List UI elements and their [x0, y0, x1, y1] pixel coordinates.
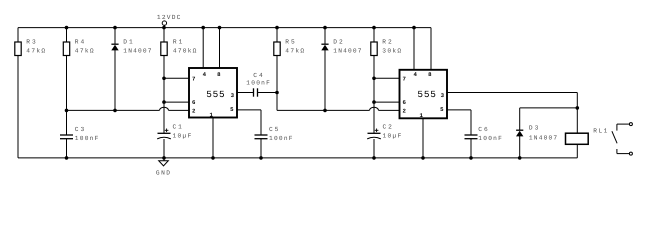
- relay coil RL1: [566, 128, 608, 158]
- svg-text:C2: C2: [383, 124, 393, 131]
- IC 555 U1 box: [189, 68, 237, 119]
- capacitor C6: [465, 126, 503, 158]
- svg-text:12VDC: 12VDC: [157, 14, 181, 21]
- svg-text:555: 555: [206, 89, 225, 100]
- terminal 12VDC: [157, 14, 181, 27]
- svg-text:47kΩ: 47kΩ: [75, 47, 94, 54]
- relay contact switch: [612, 123, 633, 156]
- svg-text:R4: R4: [75, 39, 85, 46]
- wire +12V top rail: [18, 27, 431, 29]
- junction dots bottom rail: [65, 156, 522, 160]
- svg-text:10µF: 10µF: [173, 132, 192, 139]
- svg-text:RL1: RL1: [593, 128, 607, 135]
- svg-text:6: 6: [192, 99, 196, 106]
- svg-text:R5: R5: [285, 39, 295, 46]
- wire 555 U1 pin 5 to C5: [237, 110, 261, 135]
- svg-text:1N4007: 1N4007: [123, 47, 151, 54]
- svg-text:7: 7: [402, 75, 406, 82]
- svg-text:D2: D2: [333, 39, 343, 46]
- resistor R2: [371, 28, 402, 134]
- svg-text:D1: D1: [123, 39, 133, 46]
- capacitor C3: [60, 110, 99, 157]
- capacitor C1 (polarized): [157, 124, 191, 158]
- capacitor C4 (coupling): [246, 72, 270, 97]
- svg-text:47kΩ: 47kΩ: [285, 47, 304, 54]
- svg-text:C5: C5: [269, 126, 279, 133]
- wire 555 U1 pin 7: [164, 77, 189, 79]
- diode D3 (flyback): [516, 108, 577, 158]
- svg-text:8: 8: [217, 71, 221, 78]
- resistor R4: [63, 28, 94, 111]
- svg-text:7: 7: [192, 75, 196, 82]
- resistor R3: [15, 28, 46, 158]
- resistor R1: [161, 28, 197, 134]
- svg-text:C3: C3: [75, 126, 85, 133]
- svg-text:100nF: 100nF: [246, 79, 270, 86]
- svg-text:R2: R2: [382, 39, 392, 46]
- svg-text:R1: R1: [173, 39, 183, 46]
- svg-text:47kΩ: 47kΩ: [26, 47, 45, 54]
- svg-text:6: 6: [402, 99, 406, 106]
- wire 555 U2 pin 8 to rail: [430, 28, 432, 70]
- svg-text:5: 5: [440, 106, 444, 113]
- svg-text:10µF: 10µF: [383, 132, 402, 139]
- ground symbol GND: [156, 158, 170, 177]
- svg-text:C6: C6: [478, 126, 488, 133]
- svg-text:100nF: 100nF: [269, 135, 293, 142]
- svg-text:2: 2: [402, 107, 406, 114]
- svg-text:3: 3: [231, 92, 235, 99]
- svg-text:C4: C4: [253, 72, 263, 79]
- wire 555 U2 pin 1 to ground: [422, 118, 424, 158]
- svg-text:30kΩ: 30kΩ: [382, 47, 401, 54]
- svg-text:2: 2: [192, 107, 196, 114]
- diode D2: [321, 28, 361, 111]
- resistor R5: [274, 28, 305, 93]
- wire trigger net stage 2 (C4/R5 node down and right to pin 2) with hop over R2 branch: [277, 93, 400, 111]
- wire C4 to R5/pin2 node: [258, 92, 278, 94]
- capacitor C2 (polarized): [367, 124, 401, 158]
- IC 555 U2 box: [400, 70, 448, 119]
- wire 555 U1 pin 3 output: [237, 92, 254, 94]
- svg-text:5: 5: [230, 106, 234, 113]
- capacitor C5: [255, 126, 293, 158]
- svg-text:4: 4: [203, 71, 207, 78]
- wire 555 U2 pin 7: [374, 77, 400, 79]
- wire 555 U2 pin 6: [374, 101, 400, 103]
- svg-text:3: 3: [441, 92, 445, 99]
- svg-text:1: 1: [419, 112, 423, 119]
- svg-text:GND: GND: [156, 169, 170, 176]
- wire 555 U1 pin 4 to rail: [202, 28, 204, 68]
- svg-text:4: 4: [413, 71, 417, 78]
- svg-text:100nF: 100nF: [478, 135, 502, 142]
- svg-text:D3: D3: [529, 125, 539, 132]
- wire 555 U1 pin 1 to ground: [212, 118, 214, 158]
- wire 555 U1 pin 8 to rail: [219, 28, 221, 68]
- wire 555 U2 pin 4 to rail: [413, 28, 415, 70]
- svg-text:R3: R3: [26, 39, 36, 46]
- wire bottom ground rail: [18, 157, 577, 159]
- svg-text:555: 555: [417, 89, 436, 100]
- svg-text:1N4007: 1N4007: [333, 47, 361, 54]
- wire 555 U1 pin 6: [164, 101, 189, 103]
- svg-text:100nF: 100nF: [75, 135, 99, 142]
- wire 555 U2 pin 5 to C6: [447, 110, 471, 135]
- diode D1: [111, 28, 151, 111]
- svg-text:C1: C1: [173, 124, 183, 131]
- wire trigger net stage 1 (R4/D1/C3 node to pin 2) with hop over R1 branch: [67, 107, 190, 110]
- junction dots mid nodes: [65, 77, 579, 113]
- wire 555 U2 pin 3 to relay: [447, 93, 577, 134]
- svg-text:8: 8: [428, 71, 432, 78]
- junction dots top rail: [65, 26, 416, 30]
- svg-text:470kΩ: 470kΩ: [173, 47, 197, 54]
- svg-text:1N4007: 1N4007: [529, 134, 557, 141]
